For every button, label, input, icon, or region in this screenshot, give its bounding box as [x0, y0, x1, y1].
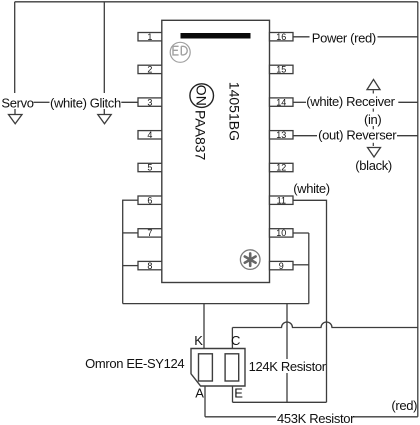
- svg-text:Power (red): Power (red): [312, 30, 376, 45]
- svg-text:7: 7: [147, 228, 152, 238]
- optocoupler emitter box: [199, 354, 213, 381]
- pin 14: [270, 97, 294, 107]
- wire A riser: [204, 386, 206, 417]
- wire pins 9-10 vertical: [308, 233, 310, 304]
- wire pin 8 stub: [123, 265, 138, 267]
- connector arrow Receiver up: [367, 79, 380, 89]
- logo asterisk: [240, 250, 260, 270]
- svg-text:11: 11: [277, 195, 286, 205]
- connector arrow Servo: [9, 109, 23, 124]
- wire Reverser label to right bus: [397, 135, 418, 137]
- pin 7: [138, 228, 162, 238]
- pin 9: [270, 261, 294, 271]
- svg-text:PAA837: PAA837: [193, 110, 209, 161]
- wire 453K line left: [205, 416, 276, 418]
- svg-text:14: 14: [276, 97, 286, 107]
- svg-text:15: 15: [276, 65, 286, 75]
- wire pin 6 stub: [123, 199, 138, 201]
- svg-text:Glitch: Glitch: [90, 95, 121, 110]
- svg-text:1: 1: [147, 32, 152, 42]
- svg-text:3: 3: [147, 97, 152, 107]
- svg-text:5: 5: [147, 163, 152, 173]
- svg-text:16: 16: [276, 32, 286, 42]
- svg-text:(out) Reverser: (out) Reverser: [318, 128, 397, 143]
- svg-text:E: E: [234, 386, 243, 401]
- svg-text:(black): (black): [355, 158, 392, 173]
- wire pin 9 stub: [293, 264, 309, 266]
- svg-text:12: 12: [276, 163, 286, 173]
- svg-text:C: C: [231, 333, 240, 348]
- wire IC bottom bus: [123, 303, 309, 305]
- wire pins 6-7-8 vertical: [122, 200, 124, 304]
- wire Glitch to pin 3: [121, 101, 138, 103]
- optocoupler Omron EE-SY124 body: [191, 349, 245, 387]
- svg-text:14051BG: 14051BG: [227, 82, 243, 141]
- logo ON: [190, 84, 214, 108]
- pin 6: [138, 195, 162, 205]
- wire Power label to right bus: [378, 36, 418, 38]
- wire 453K line right: [353, 416, 418, 418]
- svg-text:13: 13: [276, 130, 286, 140]
- svg-text:Omron EE-SY124: Omron EE-SY124: [85, 356, 184, 371]
- wire pin 13 to Reverser label: [293, 135, 317, 137]
- pin 13: [270, 130, 294, 140]
- wire right bus drop: [417, 2, 419, 417]
- svg-text:453K Resistor: 453K Resistor: [277, 411, 355, 425]
- svg-text:6: 6: [147, 195, 152, 205]
- logo ED: [170, 42, 190, 62]
- wire servo drop: [14, 2, 16, 93]
- wire glitch drop: [103, 2, 105, 93]
- pin 10: [270, 228, 294, 238]
- pin 12: [270, 163, 294, 173]
- IC U1 14051BG body: [162, 20, 270, 282]
- pin 15: [270, 65, 294, 75]
- svg-text:(in): (in): [364, 112, 381, 127]
- svg-text:(red): (red): [391, 398, 417, 413]
- connector arrow Glitch: [98, 109, 111, 124]
- wire K riser: [203, 304, 205, 349]
- svg-text:9: 9: [279, 261, 284, 271]
- wire Receiver label to right bus: [398, 101, 418, 103]
- wire C riser: [231, 328, 233, 349]
- svg-text:124K Resistor: 124K Resistor: [249, 359, 327, 374]
- svg-text:10: 10: [276, 228, 286, 238]
- wire pin 10 stub: [293, 232, 309, 234]
- pin 4: [138, 130, 162, 140]
- svg-text:(white) Receiver: (white) Receiver: [306, 94, 395, 109]
- IC U1 top bar: [181, 33, 251, 39]
- svg-text:ON: ON: [194, 85, 210, 106]
- svg-text:4: 4: [147, 130, 152, 140]
- svg-text:8: 8: [147, 261, 152, 271]
- pin 11: [270, 195, 294, 205]
- svg-text:(white): (white): [293, 181, 330, 196]
- svg-text:A: A: [195, 386, 204, 401]
- wire V1 down to E line lower: [286, 373, 288, 402]
- wire V1 down to E line upper: [286, 304, 288, 359]
- pin 3: [138, 97, 162, 107]
- wire pin 16 to Power label: [293, 36, 310, 38]
- pin 2: [138, 65, 162, 75]
- svg-text:Servo: Servo: [1, 95, 33, 110]
- svg-text:2: 2: [147, 65, 152, 75]
- wire Servo to (white): [34, 101, 50, 103]
- pin 8: [138, 261, 162, 271]
- connector arrow Reverser down: [368, 148, 381, 158]
- optocoupler sensor box: [225, 354, 239, 381]
- svg-text:K: K: [194, 333, 203, 348]
- pin 16: [270, 32, 294, 42]
- svg-text:(white): (white): [50, 95, 87, 110]
- wire pin 14 to Receiver label: [293, 101, 306, 103]
- pin 1: [138, 32, 162, 42]
- wire top bus: [15, 1, 418, 3]
- wire E riser: [232, 386, 234, 402]
- wire pin 11 down to node E line: [293, 200, 327, 402]
- dashed link segments: [372, 90, 374, 147]
- wire pin 7 stub: [123, 232, 138, 234]
- pin 5: [138, 163, 162, 173]
- wire C line with hops: [232, 322, 417, 328]
- wire E line: [233, 401, 327, 403]
